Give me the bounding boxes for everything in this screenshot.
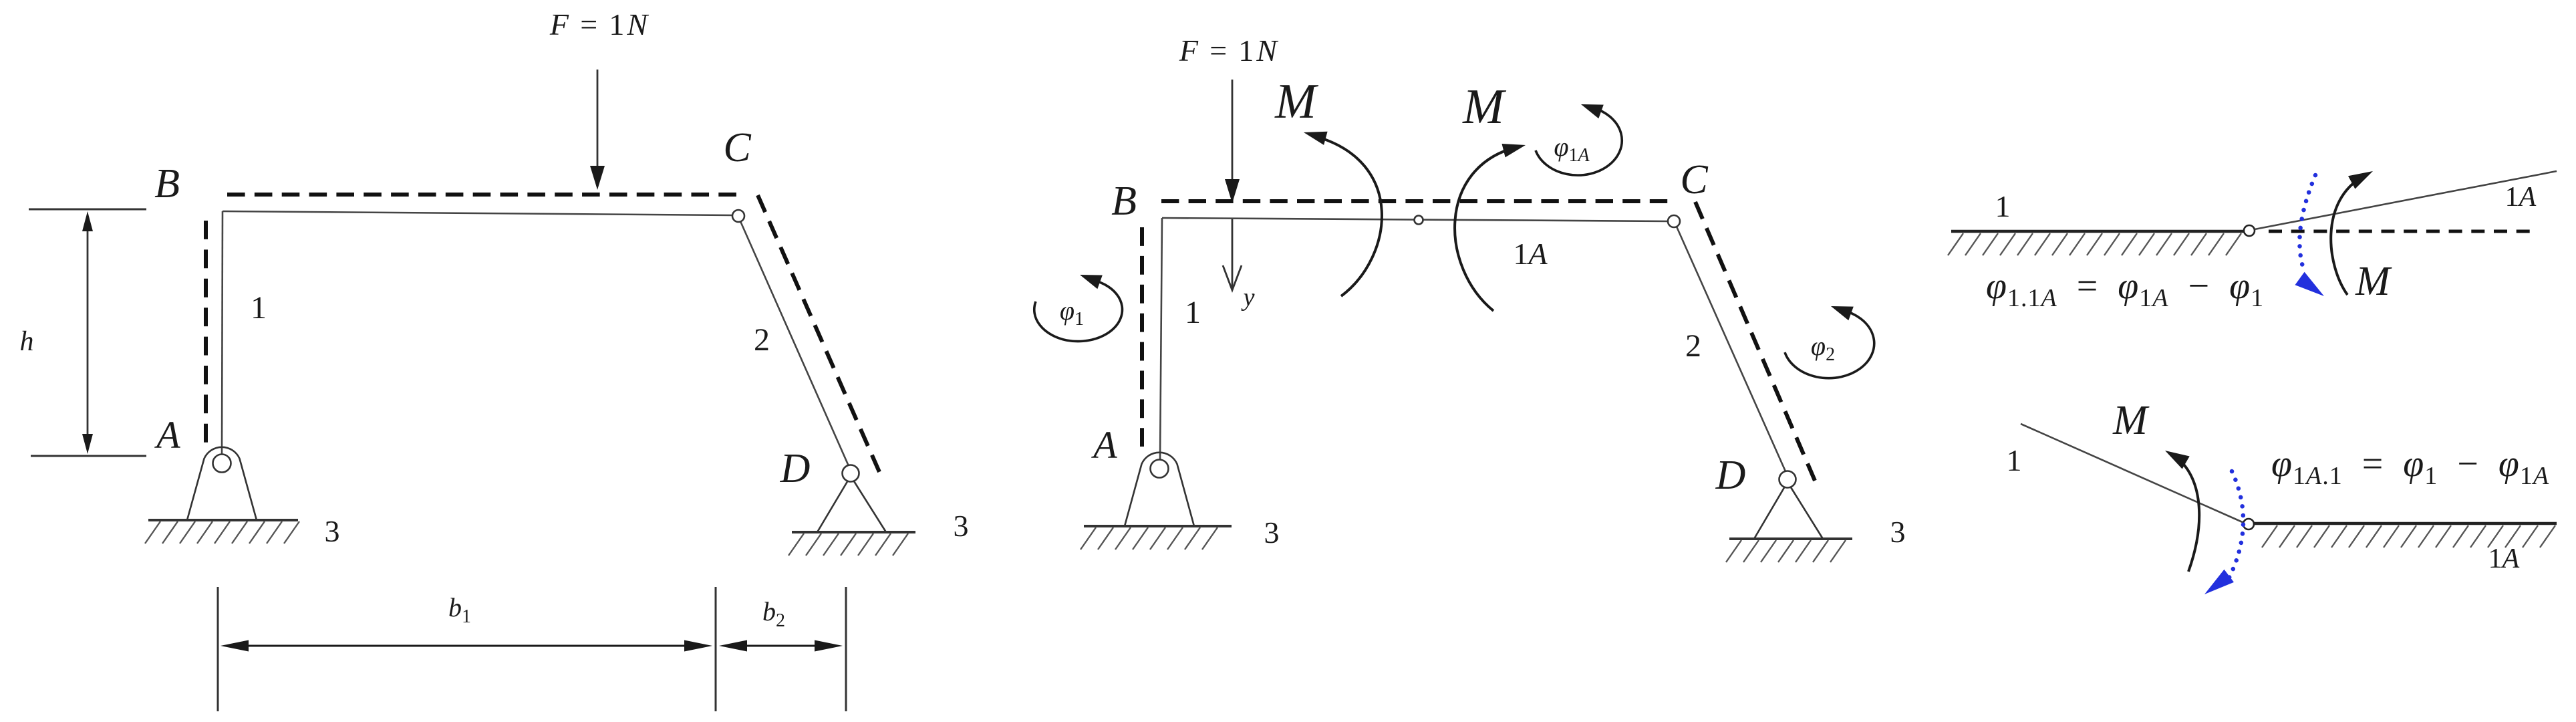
rotation phi1 curl (1034, 279, 1123, 342)
joint C circle (732, 210, 744, 222)
R1 dashed reference line (2269, 230, 2530, 233)
svg-text:3: 3 (1264, 515, 1280, 550)
R2 ground hatching (2262, 525, 2277, 548)
middle beam B-C (bars 1 and 1A) (1162, 218, 1669, 221)
svg-text:y: y (1241, 283, 1255, 312)
svg-text:C: C (723, 125, 751, 170)
svg-text:3: 3 (1890, 515, 1906, 549)
svg-text:1: 1 (2007, 443, 2022, 477)
ground hatching at D (789, 533, 804, 556)
middle dashed column (1140, 227, 1144, 447)
moment M arc (right of hinge) (1455, 147, 1517, 311)
R2 blue rotation arc (2229, 471, 2243, 578)
R1 fixed bar 1 ground line (1951, 230, 2245, 233)
svg-text:A: A (1091, 423, 1117, 467)
R2 fixed bar 1A ground line (2254, 522, 2557, 525)
svg-text:3: 3 (325, 514, 340, 548)
svg-text:A: A (154, 413, 180, 457)
svg-text:1A: 1A (2505, 182, 2537, 213)
displacement y arrow (1232, 218, 1234, 287)
dimension extension line under C (715, 587, 717, 711)
svg-text:B: B (154, 161, 180, 207)
svg-text:F = 1N: F = 1N (1179, 33, 1280, 68)
member 2 (strut C-D) (740, 221, 849, 466)
svg-text:M: M (2112, 398, 2150, 443)
force F arrow (597, 70, 599, 168)
svg-text:1A: 1A (2488, 544, 2520, 574)
svg-text:3: 3 (954, 509, 969, 543)
middle pin support A (1125, 453, 1194, 526)
dimension b2 arrow (728, 645, 834, 647)
dimension extension line under D (845, 587, 847, 711)
svg-text:1: 1 (251, 290, 267, 326)
middle ground hatching at A (1081, 527, 1096, 550)
dashed deflected column (204, 221, 208, 443)
R2 hinge circle (2243, 519, 2254, 529)
middle ground line at D (1729, 537, 1852, 540)
rotation phi2 curl (1785, 310, 1874, 378)
dashed deflected strut C-D (758, 195, 879, 472)
svg-text:B: B (1111, 178, 1137, 224)
member 1A (beam B-C) (223, 211, 733, 215)
svg-text:1: 1 (1185, 295, 1201, 330)
pin support D (817, 476, 886, 532)
moment M arc (left of hinge) (1313, 136, 1382, 296)
R1 blue rotation arc (2299, 175, 2315, 273)
middle hinge circle on beam (1415, 216, 1423, 225)
svg-text:h: h (20, 326, 34, 357)
ground line at A (148, 519, 298, 521)
middle member 1 (column) (1160, 218, 1162, 460)
svg-text:2: 2 (1685, 328, 1701, 364)
middle joint C circle (1668, 215, 1680, 227)
svg-text:2: 2 (754, 322, 770, 358)
middle ground line at A (1084, 525, 1232, 527)
ground hatching at A (145, 521, 160, 544)
middle dashed strut (1695, 202, 1815, 481)
R1 ground hatching (1948, 233, 1963, 255)
R2 bar 1 inclined (2021, 424, 2244, 523)
R1 moment M arc (2331, 176, 2364, 295)
svg-text:C: C (1680, 157, 1708, 203)
svg-text:1A: 1A (1513, 237, 1548, 271)
svg-text:M: M (1274, 74, 1319, 129)
pin support A (187, 447, 257, 520)
R2 moment M arc (2174, 455, 2199, 572)
dashed deflected beam B-C (227, 193, 736, 197)
member 1 (column A-B) (222, 211, 223, 455)
R1 bar 1A inclined (2255, 171, 2557, 229)
svg-text:M: M (1462, 80, 1507, 134)
middle force F arrow (1232, 80, 1234, 179)
svg-text:M: M (2355, 259, 2392, 304)
middle ground hatching at D (1726, 540, 1741, 562)
middle member 2 (strut C-D) (1677, 227, 1785, 471)
svg-text:D: D (1715, 453, 1746, 498)
rotation phi1A curl (1536, 108, 1622, 175)
svg-text:F = 1N: F = 1N (549, 7, 650, 41)
dimension extension line under A (217, 587, 219, 711)
dimension h extension ticks (29, 209, 146, 211)
dimension b1 arrow (230, 645, 703, 647)
dimension h arrow (87, 221, 89, 445)
svg-text:1: 1 (1995, 189, 2011, 223)
R1 hinge circle (2244, 225, 2255, 236)
middle dashed beam (1161, 199, 1668, 203)
svg-text:D: D (780, 446, 811, 491)
ground line at D (792, 531, 915, 533)
middle pin support D (1754, 482, 1823, 539)
